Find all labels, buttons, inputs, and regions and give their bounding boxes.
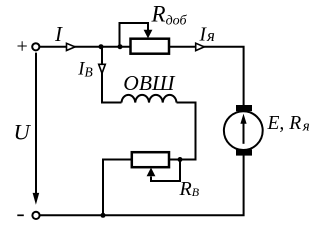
voltage arrow U: [33, 53, 40, 205]
current arrow Iя: [196, 43, 205, 50]
node junction (field branch tap): [99, 44, 104, 49]
node junction (field branch to bottom return): [101, 213, 106, 218]
svg-text:+: +: [17, 36, 28, 58]
wire Rв left side down to bottom return: [103, 160, 132, 216]
terminal + (positive supply): [32, 43, 39, 50]
brush bottom of machine: [236, 149, 252, 155]
resistor Rдоб: [131, 39, 170, 54]
rheostat Rв: [132, 152, 169, 167]
svg-text:ОВШ: ОВШ: [123, 71, 176, 95]
motor armature M circle: [224, 111, 263, 150]
wire armature down and bottom return: [40, 155, 244, 215]
current arrow I: [67, 43, 76, 50]
wire from winding down to Rв: [169, 103, 196, 160]
node junction (Rдоб bypass tap): [118, 44, 123, 49]
label -: [17, 214, 24, 216]
emf arrow inside armature: [240, 114, 246, 144]
current arrow Iв: [99, 64, 106, 73]
svg-text:Iя: Iя: [199, 24, 216, 45]
wire top from + terminal to Rдоб: [40, 46, 131, 48]
inductor ОВШ (shunt field winding): [122, 95, 177, 103]
node junction (wiper tap on right wire): [178, 157, 183, 162]
wire bypass tap over Rдоб with wiper arrow: [120, 23, 153, 47]
wire field branch down from node: [102, 47, 122, 103]
brush top of machine: [236, 105, 252, 111]
wire wiper of Rв with arrow: [147, 160, 180, 182]
svg-text:I: I: [54, 22, 63, 46]
wire from Rдоб right over to armature branch: [169, 47, 244, 105]
terminal - (negative supply): [32, 212, 39, 219]
svg-text:U: U: [14, 120, 32, 145]
